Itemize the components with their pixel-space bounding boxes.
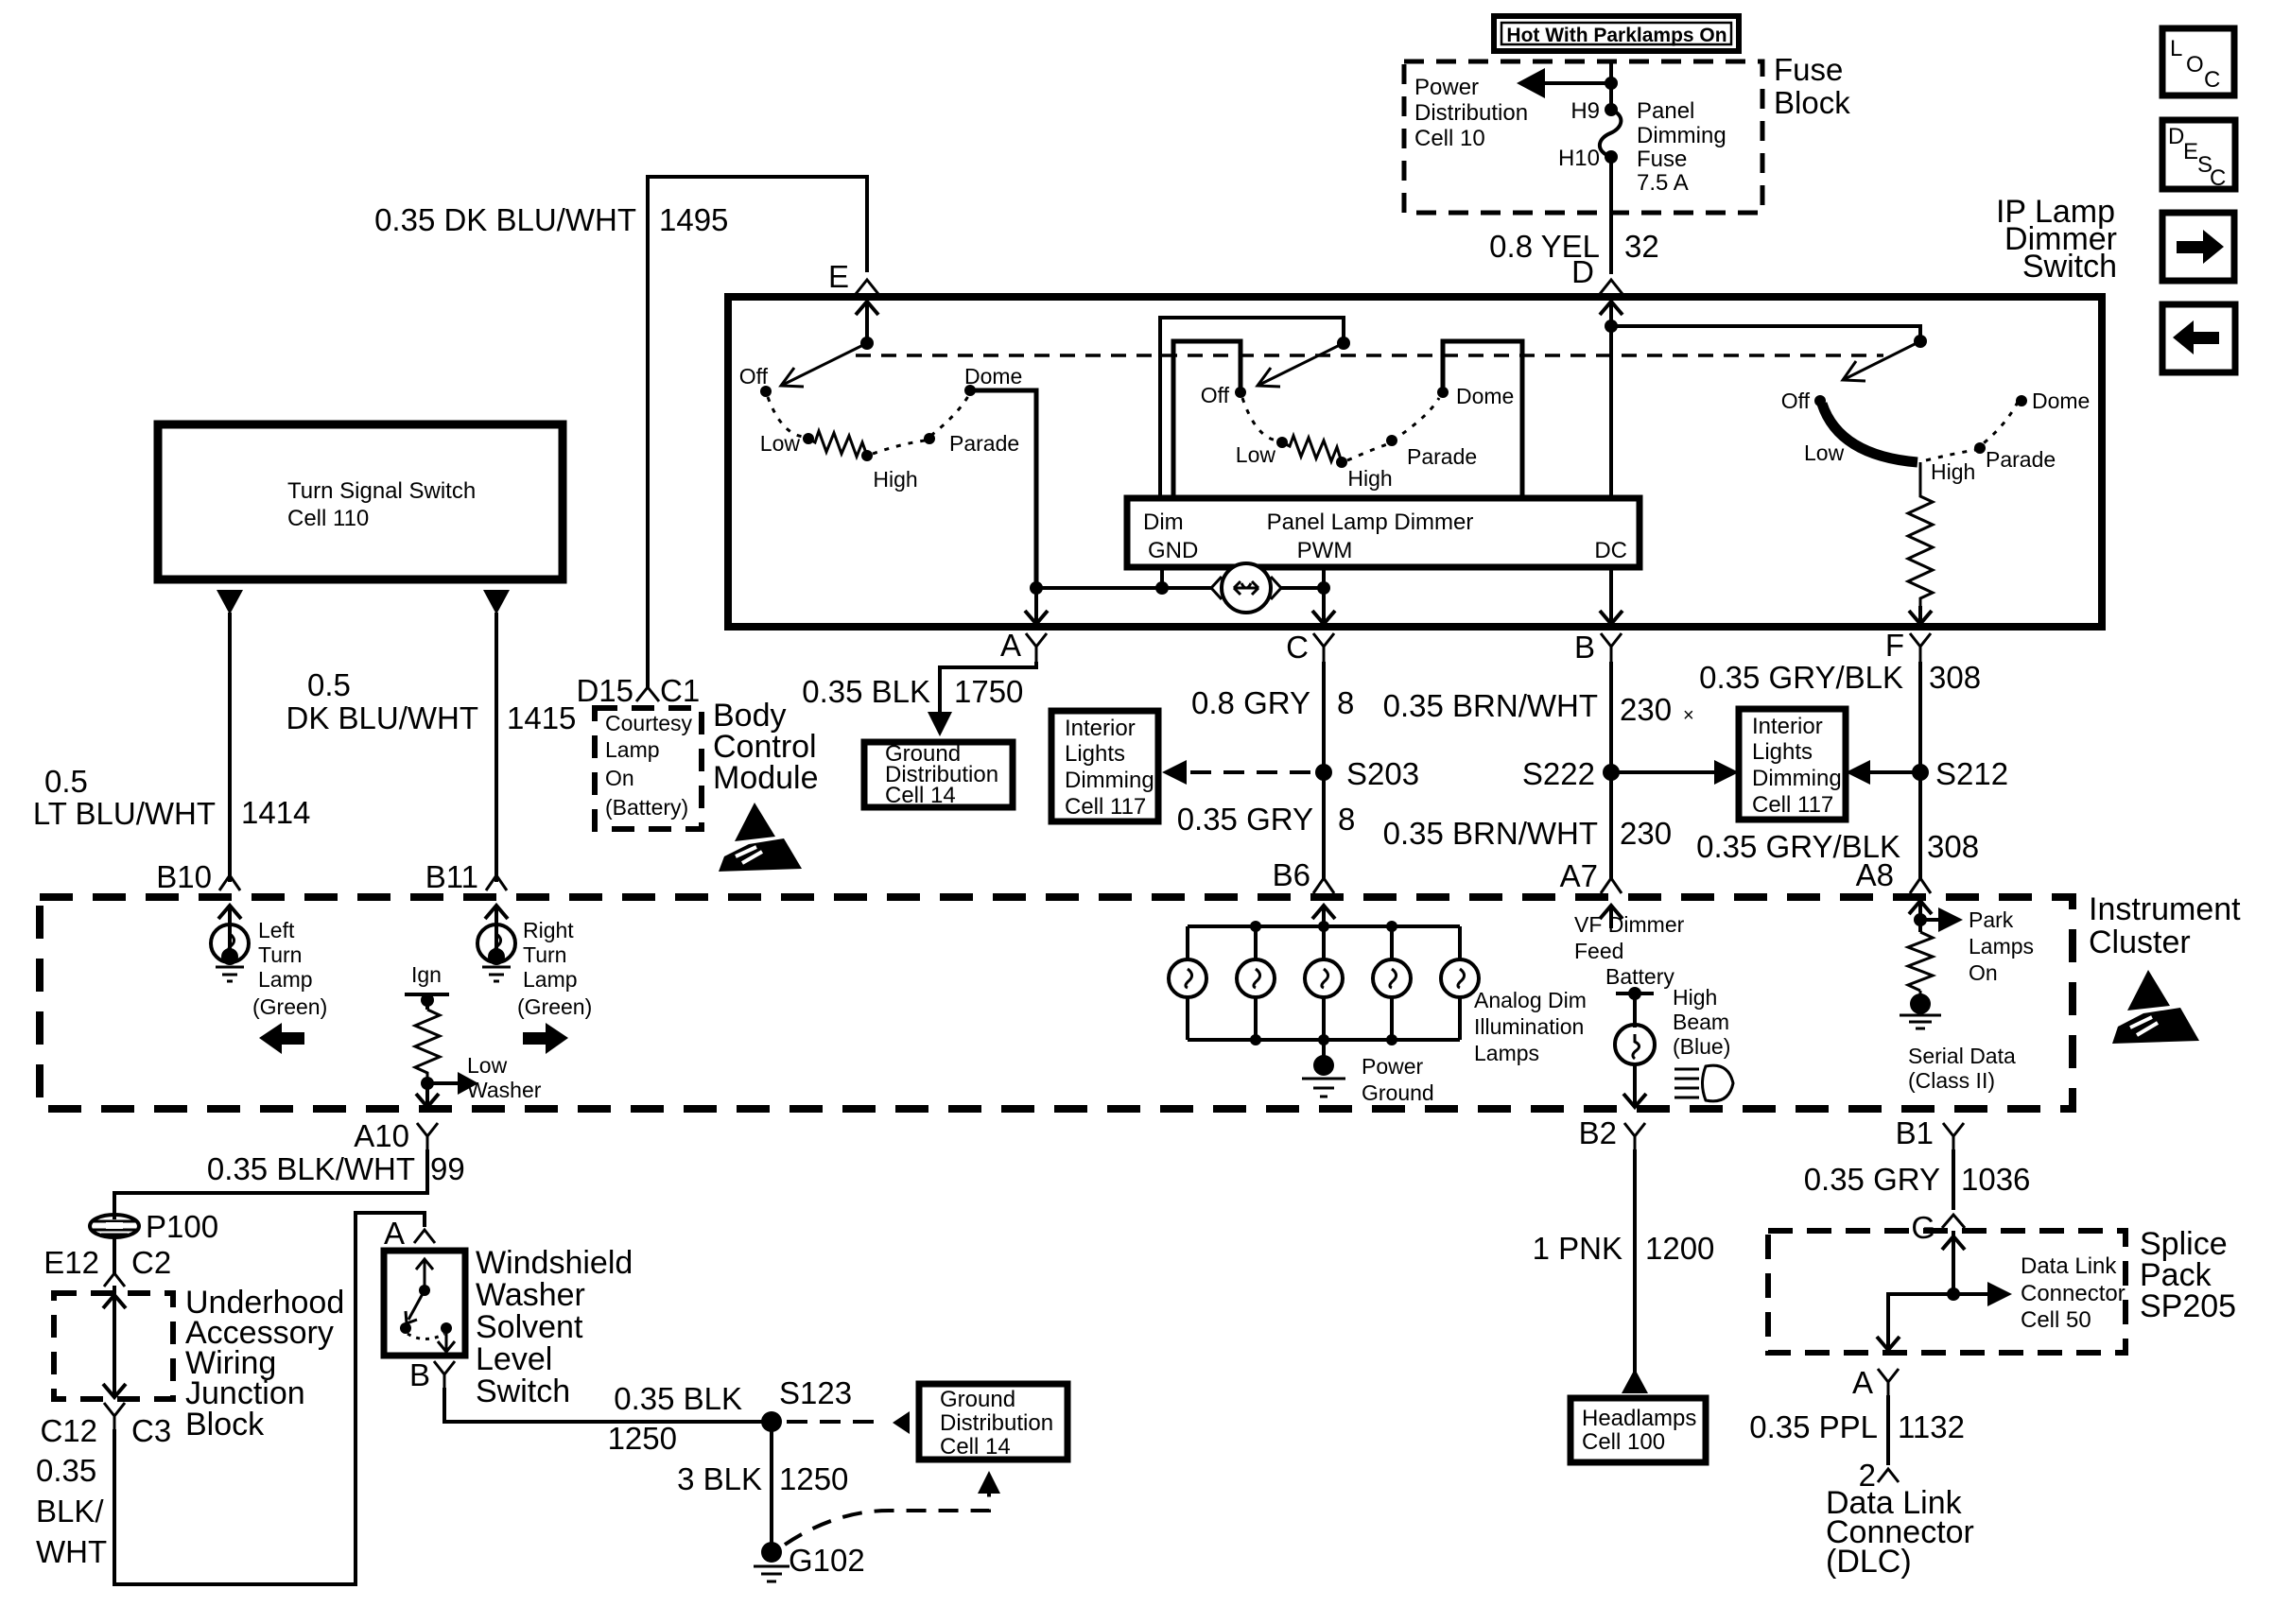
arrowhead down from box (right turn wire): [483, 590, 510, 614]
svg-text:Low: Low: [467, 1053, 508, 1078]
connector B1 symbol: [1943, 1123, 1964, 1149]
svg-text:8: 8: [1338, 802, 1355, 837]
dashed arrow S203 to interior lights dimming: [1184, 770, 1310, 774]
svg-text:Cell 10: Cell 10: [1414, 126, 1485, 151]
dashed arc Off-Low 1: [768, 397, 803, 437]
illumination lamp 5: [1441, 926, 1479, 1040]
svg-text:Lamps: Lamps: [1969, 934, 2034, 959]
label Courtesy Lamp On (Battery): [605, 711, 693, 820]
arrowhead down at B exit: [1600, 611, 1622, 624]
arrowhead up into cluster (A8): [1909, 901, 1932, 914]
left turn indicator arrow: [259, 1023, 304, 1054]
washer switch internals: [400, 1259, 455, 1352]
dashed arc High-Parade-Dome 1: [873, 396, 968, 454]
bus junction dots top: [1250, 921, 1261, 932]
svg-text:Illumination: Illumination: [1474, 1014, 1584, 1039]
svg-text:0.5: 0.5: [307, 667, 351, 702]
resistor Low-High 1: [808, 431, 867, 457]
svg-text:WHT: WHT: [36, 1534, 107, 1569]
DESC box: [2162, 120, 2235, 191]
arrowhead to data link cell 50: [1987, 1282, 2012, 1306]
svg-text:Block: Block: [1774, 85, 1850, 120]
label Turn Signal Switch Cell 110: [287, 478, 476, 531]
connector A symbol: [1026, 633, 1047, 662]
svg-text:VF Dimmer: VF Dimmer: [1574, 912, 1685, 937]
interior lights dimming cell 117 box (left): [1051, 711, 1158, 821]
svg-text:1250: 1250: [779, 1461, 848, 1496]
arrowhead S123 reference: [893, 1411, 910, 1434]
svg-text:Beam: Beam: [1673, 1010, 1729, 1034]
fuse H9-H10 element: [1600, 110, 1622, 157]
svg-text:Interior: Interior: [1752, 714, 1823, 739]
wire label 0.35 GRY/BLK 308 (lower): [1696, 829, 1979, 864]
wire label 0.35 BRN/WHT 230 (lower): [1383, 816, 1672, 851]
svg-text:(Green): (Green): [517, 994, 592, 1019]
contact Parade 3: [1974, 442, 1986, 454]
arrowhead down at cluster exit B2: [1623, 1094, 1646, 1107]
wire to low washer arrow: [427, 1081, 461, 1085]
wire: parklamp feed vertical in fuse block: [1609, 61, 1613, 106]
svg-text:Power: Power: [1362, 1054, 1424, 1079]
pivot dot switch 1: [860, 337, 874, 350]
wire high beam to B2: [1633, 1064, 1637, 1107]
wire D feed to switch 3 pivot: [1611, 326, 1920, 341]
connector A8 symbol: [1910, 878, 1931, 893]
contact Off 1: [760, 386, 772, 397]
label box "Hot With Parklamps On": [1494, 16, 1739, 51]
connector B (washer) symbol: [434, 1361, 455, 1388]
svg-text:Data Link: Data Link: [2021, 1253, 2117, 1279]
terminal dot H10: [1605, 150, 1618, 164]
svg-text:Cell 117: Cell 117: [1752, 792, 1833, 818]
svg-text:Right: Right: [523, 918, 574, 942]
svg-text:230: 230: [1620, 816, 1672, 851]
lamp bus bottom: [1188, 1038, 1460, 1042]
arrowhead up into cluster (B11): [485, 906, 508, 919]
section label Instrument Cluster: [2089, 891, 2241, 960]
right turn lamp bulb: [477, 924, 515, 981]
svg-text:7.5 A: 7.5 A: [1637, 170, 1689, 196]
svg-text:308: 308: [1929, 660, 1981, 695]
wire 0.35 DK BLU/WHT 1495 (loop from label to connector E): [648, 177, 867, 312]
LOC box: [2162, 28, 2234, 95]
label Low Washer: [467, 1053, 542, 1102]
svg-text:×: ×: [1683, 705, 1694, 726]
arrowhead up at D entry: [1600, 302, 1622, 315]
section label Splice Pack SP205: [2140, 1226, 2236, 1324]
battery feed bar: [1616, 992, 1654, 995]
high beam lamp bulb: [1615, 1025, 1655, 1064]
svg-text:Analog Dim: Analog Dim: [1474, 988, 1587, 1012]
splice S222: [1603, 764, 1620, 781]
svg-text:Headlamps: Headlamps: [1582, 1406, 1696, 1431]
svg-text:1495: 1495: [659, 202, 728, 237]
wire D15 drop to courtesy lamp: [646, 312, 650, 688]
illumination lamp 4: [1373, 926, 1411, 1040]
svg-text:High: High: [1673, 985, 1717, 1010]
svg-text:S222: S222: [1522, 756, 1595, 791]
svg-text:B: B: [409, 1357, 430, 1392]
wire B down to A7: [1609, 662, 1613, 879]
svg-text:A: A: [1000, 628, 1021, 663]
dot battery bar: [1628, 987, 1641, 1000]
svg-text:32: 32: [1624, 229, 1659, 264]
switch linkage dashed line: [856, 354, 1883, 357]
svg-text:Ign: Ign: [411, 962, 442, 987]
dashed arc High-Parade-Dome 2: [1347, 398, 1439, 460]
section label Body Control Module: [713, 698, 819, 796]
turn signal switch box: [158, 424, 563, 579]
svg-text:(Class II): (Class II): [1908, 1068, 1995, 1093]
label Left Turn Lamp (Green): [252, 918, 327, 1019]
svg-text:0.35 DK BLU/WHT: 0.35 DK BLU/WHT: [374, 202, 636, 237]
junction dot park lamps: [1914, 913, 1927, 926]
arrowhead up into cluster (B6): [1312, 906, 1335, 919]
contact Off 2: [1235, 387, 1246, 398]
wire label 1 PNK 1200: [1533, 1231, 1715, 1266]
switch arm 1: [781, 343, 867, 386]
splice S123: [761, 1411, 782, 1432]
svg-text:Serial Data: Serial Data: [1908, 1044, 2016, 1068]
svg-text:H9: H9: [1570, 98, 1600, 124]
underhood junction block dashed box: [54, 1293, 173, 1399]
resistor below High 3: [1908, 462, 1933, 606]
svg-text:Instrument: Instrument: [2089, 891, 2241, 927]
wire F down to A8: [1918, 662, 1922, 879]
panel lamp dimmer box: [1127, 498, 1640, 567]
svg-text:Cell 117: Cell 117: [1065, 794, 1146, 820]
headlamps cell 100 box: [1570, 1398, 1706, 1462]
svg-text:1250: 1250: [608, 1421, 677, 1456]
IP lamp dimmer switch box outline: [728, 297, 2102, 627]
wire label 0.35 BLK/WHT (stacked): [36, 1453, 107, 1569]
right-arrow legend box: [2162, 213, 2234, 281]
svg-text:C: C: [2204, 67, 2220, 93]
wire splice branch to DLC: [1888, 1294, 1953, 1350]
wire G into splice: [1952, 1231, 1955, 1294]
wire D feed to DC pin: [1609, 326, 1613, 498]
wire B11 to lamp: [495, 907, 498, 951]
svg-text:1036: 1036: [1961, 1162, 2030, 1197]
interior lights dimming cell 117 box (right): [1739, 709, 1846, 820]
arrowhead up inside splice pack: [1942, 1236, 1965, 1250]
wire washer B to S123: [444, 1388, 762, 1422]
svg-text:Panel Lamp Dimmer: Panel Lamp Dimmer: [1267, 510, 1474, 535]
wire: arrow to power distribution: [1541, 81, 1611, 85]
svg-text:0.5: 0.5: [44, 764, 88, 799]
wire A to DLC pin 2: [1886, 1395, 1890, 1465]
svg-text:0.35 PPL: 0.35 PPL: [1749, 1409, 1878, 1444]
wire PWM pin down: [1322, 567, 1326, 588]
dashed arrow S123 to ground distribution: [787, 1420, 877, 1424]
pivot dot switch 2: [1337, 337, 1350, 350]
svg-text:1 PNK: 1 PNK: [1533, 1231, 1622, 1266]
fuse block title: [1774, 52, 1850, 120]
pivot dot switch 3: [1914, 335, 1927, 348]
svg-text:Lamp: Lamp: [258, 967, 313, 992]
svg-text:G: G: [1911, 1210, 1935, 1245]
svg-text:Low: Low: [1236, 442, 1276, 467]
wire right turn lamp feed: [495, 613, 498, 882]
wire C down to B6: [1322, 662, 1326, 879]
wire GND pin down: [1160, 567, 1164, 588]
label Analog Dim Illumination Lamps: [1474, 988, 1587, 1065]
svg-text:S203: S203: [1346, 756, 1419, 791]
svg-text:Level: Level: [476, 1341, 552, 1377]
arrowhead down at C exit: [1312, 611, 1335, 624]
svg-text:Switch: Switch: [476, 1373, 570, 1409]
svg-text:On: On: [1969, 960, 1998, 985]
connector A (washer) symbol: [414, 1230, 435, 1243]
switch arm 2: [1258, 343, 1344, 386]
wire A8 into park lamp resistor: [1918, 903, 1922, 932]
text Power Distribution Cell 10: [1414, 75, 1528, 151]
wire Dome 1 to A output: [970, 390, 1036, 584]
svg-text:B6: B6: [1273, 857, 1310, 892]
illumination lamp 3: [1305, 926, 1343, 1040]
svg-text:Off: Off: [1201, 383, 1230, 407]
dashed arc Off-Low 2: [1242, 398, 1276, 441]
wire label 0.35 GRY 8: [1177, 802, 1356, 837]
connector B symbol: [1601, 633, 1622, 662]
connector B10 symbol: [219, 875, 240, 890]
svg-text:Dim: Dim: [1143, 510, 1184, 535]
svg-text:Ground: Ground: [940, 1387, 1015, 1412]
svg-text:1414: 1414: [241, 795, 310, 830]
fuse block dashed outline: [1404, 61, 1762, 213]
wire label 0.8 GRY 8: [1191, 685, 1354, 720]
svg-text:Courtesy: Courtesy: [605, 711, 693, 735]
svg-text:C: C: [1286, 630, 1309, 665]
contact Low 1: [803, 433, 814, 444]
wire label 0.35 GRY 1036: [1804, 1162, 2031, 1197]
svg-text:0.35: 0.35: [36, 1453, 96, 1488]
svg-text:DK BLU/WHT: DK BLU/WHT: [286, 700, 478, 735]
label Serial Data (Class II): [1908, 1044, 2016, 1093]
ground G102: [754, 1542, 789, 1581]
junction dot splice: [1947, 1287, 1960, 1301]
svg-text:Windshield: Windshield: [476, 1245, 633, 1281]
illumination lamp 1: [1169, 926, 1206, 1040]
svg-text:DC: DC: [1594, 538, 1627, 563]
svg-text:Solvent: Solvent: [476, 1309, 583, 1345]
svg-text:D15: D15: [576, 673, 633, 708]
svg-text:(DLC): (DLC): [1826, 1544, 1912, 1580]
svg-text:A8: A8: [1856, 857, 1894, 892]
svg-text:LT BLU/WHT: LT BLU/WHT: [33, 796, 216, 831]
dashed arc High-Parade-Dome 3: [1926, 398, 2020, 460]
wire Off 2 loop to GND side: [1173, 341, 1241, 498]
svg-text:Turn: Turn: [523, 942, 566, 967]
right turn indicator arrow: [523, 1023, 568, 1054]
connector 2 symbol: [1878, 1469, 1899, 1482]
svg-text:GND: GND: [1148, 538, 1198, 563]
dashed reference G102 to ground distribution: [785, 1494, 989, 1545]
junction dot at parklamp feed: [1605, 77, 1618, 90]
current source symbol on dimmer output: [1211, 563, 1281, 613]
svg-text:Washer: Washer: [467, 1078, 542, 1102]
contact High 2: [1336, 457, 1347, 468]
svg-text:1750: 1750: [954, 674, 1023, 709]
arrowhead into interior lights box right: [1714, 760, 1739, 785]
svg-text:(Battery): (Battery): [605, 795, 688, 820]
connector A7 symbol: [1601, 878, 1622, 893]
arrow S222 to interior lights dimming: [1611, 770, 1717, 774]
wire A10 down and left to junction block: [114, 1149, 427, 1219]
connector F symbol: [1910, 633, 1931, 662]
svg-text:Turn Signal Switch: Turn Signal Switch: [287, 478, 476, 504]
contact Dome 1: [964, 385, 976, 396]
svg-text:Low: Low: [1804, 441, 1845, 465]
wire splice to data link connector cell 50: [1953, 1292, 1991, 1296]
svg-text:(Blue): (Blue): [1673, 1034, 1730, 1059]
arrowhead down at cluster exit A10: [416, 1094, 439, 1107]
junction dot GND: [1155, 581, 1169, 595]
svg-text:0.35 BLK: 0.35 BLK: [614, 1381, 742, 1416]
svg-text:High: High: [873, 467, 917, 492]
label Right Turn Lamp (Green): [517, 918, 592, 1019]
switch arm 3: [1843, 341, 1920, 380]
connector D15 symbol: [636, 687, 659, 701]
svg-text:B1: B1: [1896, 1115, 1934, 1150]
svg-text:Dome: Dome: [964, 364, 1022, 389]
svg-text:1132: 1132: [1898, 1409, 1965, 1444]
wire: fuse output down to connector D: [1609, 157, 1613, 274]
svg-text:Fuse: Fuse: [1637, 147, 1687, 172]
svg-text:E: E: [828, 259, 849, 294]
svg-text:Off: Off: [1781, 389, 1811, 413]
wire to park lamps arrow: [1920, 918, 1942, 922]
svg-text:0.35 BRN/WHT: 0.35 BRN/WHT: [1383, 688, 1598, 723]
svg-text:Distribution: Distribution: [1414, 100, 1528, 126]
wire A to ground distribution: [940, 662, 1036, 716]
wire label 0.35 BLK/WHT 99: [207, 1151, 465, 1186]
junction dot D feed: [1605, 320, 1618, 333]
svg-text:Dome: Dome: [1456, 384, 1514, 408]
wire B1 down to G: [1952, 1149, 1955, 1210]
svg-text:0.35 BLK: 0.35 BLK: [802, 674, 930, 709]
ground distribution cell 14 box (upper): [864, 741, 1013, 808]
svg-text:Feed: Feed: [1574, 939, 1623, 963]
terminal dot H9: [1605, 103, 1618, 116]
thick wiper arc Off-High 3: [1822, 404, 1917, 462]
svg-text:99: 99: [430, 1151, 465, 1186]
svg-text:High: High: [1347, 466, 1392, 491]
svg-text:Cell 110: Cell 110: [287, 506, 369, 531]
instrument cluster dashed box: [40, 897, 2073, 1109]
arrowhead up at E entry: [856, 302, 878, 315]
svg-text:A7: A7: [1560, 858, 1598, 893]
ground node park lamps: [1900, 991, 1941, 1028]
svg-text:Hot With Parklamps On: Hot With Parklamps On: [1506, 25, 1726, 46]
contact Low 2: [1276, 437, 1288, 448]
arm 1 arrowhead: [781, 368, 804, 387]
resistor park lamps: [1908, 932, 1933, 991]
svg-text:0.35 BRN/WHT: 0.35 BRN/WHT: [1383, 816, 1598, 851]
grommet P100: [90, 1215, 139, 1237]
svg-text:S123: S123: [779, 1375, 852, 1410]
arrowhead into ground distribution: [928, 712, 952, 736]
svg-text:Washer: Washer: [476, 1277, 585, 1313]
contact High 1: [861, 450, 873, 461]
svg-text:Cell 14: Cell 14: [885, 783, 956, 808]
wire A exit arrow: [1034, 588, 1038, 623]
arrowhead left (power distribution): [1517, 68, 1545, 98]
wire B10 to lamp: [228, 907, 232, 951]
arrowhead G102 reference: [978, 1471, 1000, 1494]
svg-text:Switch: Switch: [2022, 249, 2117, 285]
svg-text:P100: P100: [146, 1209, 218, 1244]
washer switch box: [384, 1251, 465, 1356]
arrowhead into interior lights box: [1162, 760, 1187, 785]
svg-text:H10: H10: [1558, 146, 1600, 171]
connector C12/C3 symbol: [104, 1403, 125, 1429]
left-arrow legend box: [2162, 304, 2235, 372]
section label Data Link Connector (DLC): [1826, 1485, 1974, 1580]
label Data Link Connector Cell 50: [2021, 1253, 2126, 1333]
power ground node: [1302, 1040, 1345, 1097]
wire DC pin down to B exit: [1609, 567, 1613, 623]
arrow S212 to interior lights dimming: [1867, 770, 1920, 774]
svg-text:Power: Power: [1414, 75, 1479, 100]
svg-text:S212: S212: [1935, 756, 2008, 791]
svg-text:D: D: [1571, 254, 1594, 289]
wire left turn lamp feed: [228, 613, 232, 882]
svg-text:Distribution: Distribution: [940, 1410, 1053, 1436]
contact Dome 3: [2016, 395, 2027, 406]
svg-text:Low: Low: [760, 431, 801, 456]
junction dot low washer: [421, 1077, 434, 1090]
arrowhead down at splice exit: [1877, 1337, 1900, 1350]
courtesy lamp dashed box: [595, 708, 702, 829]
svg-text:C1: C1: [660, 673, 700, 708]
svg-text:High: High: [1931, 459, 1975, 484]
wire Dome 2 loop to dimmer: [1443, 341, 1522, 498]
connector G symbol: [1942, 1215, 1965, 1228]
svg-text:A10: A10: [354, 1118, 409, 1153]
svg-text:Turn: Turn: [258, 942, 302, 967]
svg-text:Block: Block: [185, 1407, 265, 1443]
left turn lamp bulb: [211, 924, 249, 981]
junction dot A wire: [1030, 581, 1043, 595]
wire label 0.35 BLK 1750: [802, 674, 1023, 709]
svg-text:B: B: [1574, 630, 1595, 665]
contact Dome 2: [1437, 387, 1449, 398]
label High Beam (Blue): [1673, 985, 1730, 1059]
svg-text:SP205: SP205: [2140, 1288, 2236, 1324]
svg-text:PWM: PWM: [1297, 538, 1353, 563]
bus junction dots bottom: [1250, 1034, 1261, 1045]
splice S212: [1912, 764, 1929, 781]
wire B6 into lamp bus: [1322, 907, 1326, 926]
svg-text:Connector: Connector: [2021, 1281, 2126, 1306]
arrowhead down at F exit: [1909, 611, 1932, 624]
svg-text:Cell 14: Cell 14: [940, 1434, 1011, 1460]
illumination lamp 2: [1237, 926, 1275, 1040]
arrowhead down inside junction block: [103, 1384, 126, 1397]
svg-text:Lights: Lights: [1065, 741, 1125, 767]
label Power Ground: [1362, 1054, 1434, 1105]
svg-text:E: E: [2183, 139, 2198, 164]
wire pivot 2 loop to Dim pin: [1160, 318, 1344, 498]
arrowhead low washer: [458, 1072, 478, 1095]
arm 2 arrowhead: [1258, 368, 1280, 387]
high beam headlamp icon: [1674, 1065, 1733, 1101]
label Park Lamps On: [1969, 907, 2034, 985]
svg-text:0.35 GRY: 0.35 GRY: [1804, 1162, 1940, 1197]
svg-text:Cell 50: Cell 50: [2021, 1307, 2091, 1333]
contact Parade 2: [1386, 435, 1397, 446]
